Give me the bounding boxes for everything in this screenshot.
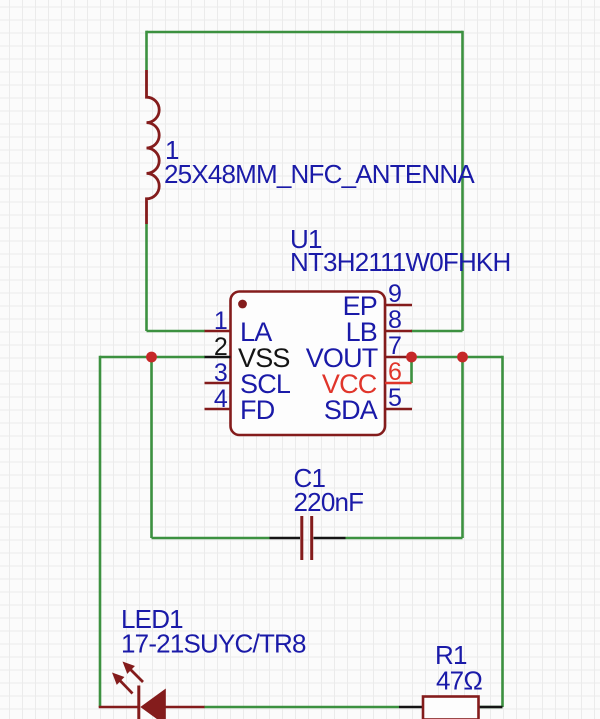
pin 5 stub [385, 408, 412, 411]
svg-text:220nF: 220nF [294, 487, 364, 517]
resistor R1 left lead [399, 706, 423, 709]
svg-text:25X48MM_NFC_ANTENNA: 25X48MM_NFC_ANTENNA [164, 159, 475, 189]
inductor L antenna coil [147, 70, 160, 224]
svg-text:47Ω: 47Ω [436, 666, 482, 696]
LED arrow 1 shaft [119, 679, 133, 694]
resistor R1 right lead [479, 706, 503, 709]
svg-text:9: 9 [388, 280, 401, 308]
svg-text:4: 4 [214, 385, 228, 413]
pin 8 stub [385, 330, 412, 333]
op-amp U1 body [231, 292, 386, 436]
junction dot VSS [146, 352, 157, 363]
wire antenna left lower [147, 224, 206, 331]
pin 9 stub [385, 304, 412, 307]
pin 2 stub [205, 356, 231, 359]
wire VOUT-VCC tie [410, 357, 413, 383]
pin 6 stub [385, 382, 412, 385]
junction dot mid rail [457, 352, 468, 363]
pin 4 stub [205, 408, 231, 411]
LED right lead [166, 706, 205, 709]
wire top loop [147, 31, 463, 34]
svg-text:6: 6 [388, 358, 401, 386]
U1 pin-1 marker dot [238, 300, 247, 309]
pin 7 stub [385, 356, 412, 359]
wire VSS [100, 356, 205, 359]
svg-text:17-21SUYC/TR8: 17-21SUYC/TR8 [121, 629, 306, 659]
LED cathode bar [137, 686, 140, 719]
LED arrow 2 shaft [129, 668, 143, 682]
LED arrow 2 head [123, 662, 135, 674]
pin 3 stub [205, 382, 231, 385]
svg-text:2: 2 [214, 333, 227, 361]
LED left lead [99, 706, 138, 709]
wire right vertical [411, 31, 463, 331]
wire LED to R1 [204, 706, 399, 709]
svg-text:NT3H2111W0FHKH: NT3H2111W0FHKH [290, 247, 510, 277]
wire C1 right to mid vertical [346, 357, 463, 538]
capacitor C1 right lead [314, 537, 346, 540]
wire mid-left vertical to C1 [152, 357, 270, 538]
wire VOUT to right rail [412, 356, 503, 359]
LED triangle [140, 689, 166, 719]
svg-text:3: 3 [214, 359, 227, 387]
capacitor C1 right plate [310, 516, 313, 560]
svg-text:5: 5 [388, 384, 401, 412]
pin 1 stub [205, 330, 231, 333]
svg-text:8: 8 [388, 306, 401, 334]
capacitor C1 left plate [300, 516, 303, 560]
junction dot VOUT [406, 352, 417, 363]
LED arrow 1 head [112, 673, 124, 685]
svg-text:1: 1 [214, 307, 227, 335]
svg-text:FD: FD [240, 395, 275, 425]
resistor R1 body [423, 697, 479, 719]
svg-text:SDA: SDA [324, 395, 378, 425]
svg-text:7: 7 [388, 332, 401, 360]
wire left rail down to LED [99, 356, 102, 707]
wire right rail down to R1 [479, 356, 503, 707]
capacitor C1 left lead [270, 537, 301, 540]
wire antenna left upper [145, 31, 148, 70]
